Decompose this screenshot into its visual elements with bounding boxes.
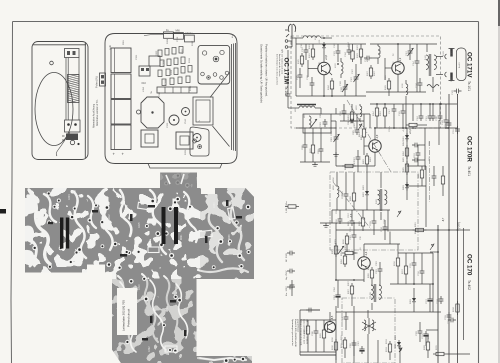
wire emitter T2 <box>397 75 399 93</box>
supply rail -9V <box>336 229 470 231</box>
wire <box>384 104 386 105</box>
svg-text:Leiterplatte 202 [K] 765: Leiterplatte 202 [K] 765 <box>122 300 126 331</box>
resistor R315 <box>433 353 436 355</box>
svg-text:Ts 102: Ts 102 <box>284 86 288 96</box>
capacitor C323 <box>418 328 423 336</box>
wire base T2 <box>385 67 392 69</box>
component board outline (Geraeteansicht) <box>105 34 237 164</box>
wire <box>329 312 331 321</box>
wire <box>355 64 357 74</box>
FM output socket box <box>457 48 467 81</box>
AM IF block edge <box>425 166 427 227</box>
wire base T3 <box>364 145 369 147</box>
wire <box>433 166 435 173</box>
svg-text:OC 171V: OC 171V <box>466 52 473 78</box>
dash-dot enclosure ratio detector <box>330 172 418 250</box>
voltage arrow 2 <box>358 124 362 130</box>
capacitor C206 <box>342 108 347 116</box>
wire rail crossbars <box>430 251 438 253</box>
wire <box>409 44 411 48</box>
capacitor C306 <box>352 340 357 348</box>
svg-text:L304: L304 <box>143 86 145 92</box>
svg-text:-1,4: -1,4 <box>365 251 368 256</box>
svg-text:OC 170: OC 170 <box>466 254 473 276</box>
svg-text:-8,7: -8,7 <box>442 217 445 222</box>
capacitor C221 <box>319 146 324 154</box>
socket contact b <box>450 73 452 81</box>
wire <box>371 266 373 268</box>
svg-text:+0,8: +0,8 <box>325 54 328 60</box>
wire bus <box>300 319 336 321</box>
capacitor C315 <box>412 260 417 268</box>
antenna terminal b <box>285 46 288 49</box>
capacitor C318 <box>439 296 444 304</box>
svg-text:+0,2: +0,2 <box>409 128 412 134</box>
voltage arrow 1 <box>397 211 401 217</box>
wire <box>360 44 362 46</box>
wire <box>380 172 382 188</box>
supply rail 2 <box>448 94 450 363</box>
wire <box>304 150 306 162</box>
diode D302 <box>413 296 415 298</box>
svg-text:Printed circuit: Printed circuit <box>127 309 131 327</box>
PCB etched trace channels (white) <box>28 190 248 360</box>
coupling capacitor C301 <box>352 232 357 240</box>
wire <box>337 44 339 48</box>
capacitor C320 <box>314 328 319 336</box>
wire <box>442 166 444 173</box>
wire AGC column <box>406 128 408 200</box>
wire <box>397 244 399 255</box>
node rail <box>437 229 439 231</box>
wire <box>419 78 421 80</box>
resistor R207 <box>442 173 444 176</box>
resistor R203 <box>366 153 368 156</box>
svg-text:R321: R321 <box>185 149 187 155</box>
resistor R210 <box>346 233 348 236</box>
resistor R102 <box>352 48 354 51</box>
white notch top edge <box>201 188 215 194</box>
legend capacitor 3 <box>287 285 295 290</box>
driver transformer Tr301 <box>371 285 373 299</box>
wire <box>445 104 447 117</box>
wire <box>377 44 379 46</box>
transformer footprint left <box>141 130 158 147</box>
supply rail 3 <box>457 94 459 363</box>
tuning capacitor C108 (variable) <box>343 84 348 92</box>
thermistor R312 <box>389 341 391 344</box>
capacitor C106 <box>310 80 315 88</box>
connector tab MW <box>174 33 184 40</box>
svg-text:C230: C230 <box>214 202 216 208</box>
voltage arrow 3 <box>430 244 434 250</box>
svg-text:R303: R303 <box>156 50 158 56</box>
IF can TR302 <box>182 108 190 116</box>
ground AF <box>323 223 329 227</box>
wire h 186 <box>407 185 426 187</box>
node <box>335 279 337 281</box>
svg-text:C215: C215 <box>139 222 141 228</box>
wire FM left vertical <box>295 44 297 96</box>
transistor T3 OC170R <box>369 140 381 152</box>
transformer footprint bars middle <box>162 207 166 244</box>
svg-text:R318: R318 <box>167 306 169 312</box>
svg-text:Modell 9 MΩ, (MW/KHz/NSE: Modell 9 MΩ, (MW/KHz/NSE <box>294 319 296 348</box>
wire <box>345 172 347 191</box>
capacitor C310 on rail <box>447 120 452 128</box>
capacitor C205 <box>355 127 360 135</box>
output jack b <box>445 72 447 77</box>
svg-text:C204: C204 <box>69 194 71 200</box>
diode AFC <box>323 42 325 44</box>
wire h 166 <box>407 165 426 167</box>
legend capacitor 2 <box>287 269 295 274</box>
diode D202 <box>406 182 408 184</box>
volume potentiometer R302 <box>335 243 337 246</box>
capacitor C114 <box>415 58 420 66</box>
speaker cone ellipse <box>35 73 73 146</box>
white notch bottom edge <box>87 265 105 273</box>
wire <box>416 44 418 58</box>
electrolytic C317 <box>427 296 432 304</box>
capacitor C319 <box>447 312 452 320</box>
electrolytic capacitor C4 (layout) <box>111 125 131 150</box>
fixing screw <box>70 140 74 144</box>
speaker rim (side view) <box>232 43 236 151</box>
resistor R320 <box>307 323 309 326</box>
ferrite antenna coil L202 <box>299 106 315 108</box>
lower chassis box <box>190 127 209 156</box>
node <box>413 283 415 285</box>
svg-text:OC 170R: OC 170R <box>466 136 473 162</box>
wire collector T1 <box>323 75 325 96</box>
legend resistor symbol <box>285 206 288 208</box>
resistor R306 <box>371 267 373 270</box>
wire <box>405 80 407 84</box>
svg-text:R316: R316 <box>190 85 192 91</box>
svg-text:Fi101: Fi101 <box>425 54 427 60</box>
chassis speaker magnet housing <box>198 45 230 84</box>
capacitor C122 <box>444 117 449 125</box>
svg-text:Position of switches shown:: Position of switches shown: UK-key pushe… <box>265 44 269 97</box>
trimmer C113 <box>408 48 413 56</box>
wire <box>348 44 350 47</box>
antenna <box>285 24 296 38</box>
wire <box>344 80 346 84</box>
svg-text:gegen Masse: gegen Masse <box>297 319 299 333</box>
wire antenna to input coil <box>292 37 303 39</box>
svg-text:Voltages measured in posit.: Voltages measured in posit. <box>300 319 303 346</box>
node <box>337 63 339 65</box>
wire h link <box>398 252 433 254</box>
svg-text:R304: R304 <box>167 38 169 44</box>
wire base T4 <box>354 252 358 254</box>
capacitor C219 <box>372 218 377 226</box>
diode D203 <box>366 189 368 191</box>
transformer footprint bars left <box>60 218 63 249</box>
resistor R204 <box>406 145 408 148</box>
node <box>353 222 355 224</box>
electrolytic capacitor C3 (layout) <box>111 100 131 125</box>
ground <box>333 152 339 156</box>
PCB protrusion overlay <box>160 173 197 188</box>
capacitor C303 <box>378 266 383 274</box>
wire <box>340 58 342 62</box>
wire <box>384 220 386 224</box>
wire emitter rail <box>336 165 375 167</box>
wire emitter <box>329 72 332 75</box>
svg-text:Polen (IN): Polen (IN) <box>95 76 99 88</box>
wire <box>397 269 399 284</box>
resistor group R301/R302 labels <box>139 66 150 76</box>
svg-text:rosa: rosa <box>122 40 125 45</box>
resistor R112 <box>384 105 386 108</box>
capacitor C213 <box>416 150 421 158</box>
wire emitter T4 <box>363 270 365 283</box>
wire <box>353 223 355 232</box>
capacitor C218 <box>383 224 388 232</box>
short feed <box>438 120 440 145</box>
wire <box>337 280 339 292</box>
tab feed wire <box>144 34 164 35</box>
resistor R205 <box>406 161 408 164</box>
svg-text:mit Tasten nach vorn: mit Tasten nach vorn <box>281 54 284 75</box>
resistor R316 <box>397 255 399 258</box>
wire <box>345 312 347 314</box>
svg-text:Ker. 125V: Ker. 125V <box>285 286 288 296</box>
dash-dot AM IF boundary <box>429 141 431 202</box>
wire <box>307 320 309 323</box>
svg-text:C512: C512 <box>185 118 187 124</box>
capacitor C214 <box>432 173 437 181</box>
wire <box>304 128 306 142</box>
svg-text:Fi201: Fi201 <box>376 198 378 204</box>
wire volume pot <box>335 223 337 280</box>
wire <box>447 353 470 355</box>
svg-text:R308: R308 <box>171 69 173 75</box>
resistor R322 <box>427 339 429 342</box>
capacitor C207 <box>356 154 361 162</box>
oscillator coil L201 <box>309 116 311 128</box>
svg-text:C301: C301 <box>136 54 138 60</box>
node junction <box>323 37 325 39</box>
capacitor C311 <box>455 126 460 134</box>
wire collector T3 <box>374 128 376 140</box>
svg-text:NF. 500V: NF. 500V <box>286 252 288 262</box>
magnet support rails <box>66 58 79 121</box>
svg-text:R236: R236 <box>229 234 231 240</box>
resistor R215 <box>312 142 314 145</box>
PCB tiny white reference labels <box>69 194 231 352</box>
resistor R202 <box>351 109 353 112</box>
wire AF bus <box>336 279 364 281</box>
svg-text:-0,9: -0,9 <box>376 134 379 139</box>
capacitor C121 <box>401 108 406 116</box>
AF top rail <box>320 222 362 224</box>
svg-text:Ts 401: Ts 401 <box>467 166 471 176</box>
capacitor C204 <box>348 119 356 124</box>
resistor R310 <box>335 339 337 342</box>
wire <box>346 232 348 234</box>
cone magnet block <box>193 97 213 125</box>
capacitor C321 <box>306 308 314 313</box>
wire diode to T1 <box>323 51 325 62</box>
svg-text:Ts 402: Ts 402 <box>467 280 471 290</box>
IF transformer Fi101 <box>426 55 428 69</box>
wire <box>389 340 391 342</box>
resistor R107 <box>370 65 372 68</box>
capacitor C124 <box>418 80 423 88</box>
node <box>397 43 399 45</box>
supply rail 4 <box>432 253 434 312</box>
svg-text:R312: R312 <box>192 40 194 46</box>
wire mixer rail <box>352 113 370 115</box>
supply rail 5 <box>463 228 465 340</box>
svg-text:R221: R221 <box>181 234 183 240</box>
wire <box>373 210 375 218</box>
wire <box>420 159 425 161</box>
capacitor C313 <box>448 318 456 323</box>
capacitor C217 <box>350 218 355 226</box>
mechanical link detector <box>333 182 371 229</box>
board tiny ref labels <box>136 36 201 155</box>
node <box>440 103 442 105</box>
wire collector T2 <box>397 44 399 62</box>
wire <box>366 172 368 189</box>
svg-text:0,1W 1/10w: 0,1W 1/10w <box>286 201 288 213</box>
bottom rail FM <box>296 95 366 97</box>
wire <box>420 124 427 126</box>
wire h <box>300 351 336 353</box>
trimmer hole <box>137 110 141 114</box>
transistor T2 OC171V <box>392 62 404 74</box>
wire <box>299 68 301 72</box>
resistor R201 <box>363 126 365 129</box>
capacitor C101 <box>304 47 309 55</box>
wire <box>305 44 307 47</box>
coil L105 <box>378 46 380 58</box>
wire <box>429 284 431 296</box>
oscillator tank circuit loop <box>303 114 331 133</box>
wire base T1 <box>308 68 318 70</box>
electrolytic C312 <box>423 331 428 339</box>
resistor R304 <box>344 253 346 256</box>
wire <box>370 64 372 66</box>
resistor R307 <box>351 283 353 286</box>
wire <box>314 309 320 311</box>
dashed enclosure UKW tuner <box>291 36 441 128</box>
wire <box>335 121 337 134</box>
capacitor C104 <box>347 47 352 55</box>
electrolytic C307 <box>359 346 364 354</box>
emitter resistor R109 <box>388 78 390 81</box>
capacitor C110 <box>364 56 372 61</box>
wire <box>312 44 314 46</box>
wire <box>417 145 419 150</box>
wire h 121 <box>340 120 364 122</box>
transistor T4 OC170 <box>358 257 370 269</box>
wire det verticals <box>387 210 389 232</box>
IF can TR303 <box>193 134 201 142</box>
electrolytic capacitor C1 (layout) <box>111 48 131 73</box>
diode D201 <box>406 133 408 135</box>
wire <box>419 322 421 328</box>
svg-text:Alternative version of B 1: Alternative version of B 1 <box>96 99 99 126</box>
ferrite rod <box>297 104 316 106</box>
wire <box>432 104 434 113</box>
wire FM out top <box>436 56 443 58</box>
svg-text:Gezeichnete Schalterstellung:: Gezeichnete Schalterstellung: UK-Taste g… <box>260 44 264 104</box>
AM ground rail <box>300 161 330 163</box>
resistor R113 <box>406 124 409 126</box>
coil core arrow <box>311 119 317 127</box>
capacitor C118 <box>419 113 424 121</box>
wire top rail FM left <box>296 43 366 45</box>
mechanical tuning link (dash-dot diagonal) <box>347 100 391 172</box>
wire <box>296 107 299 109</box>
resistor R105 <box>301 53 303 56</box>
small parts cluster on board (switch bank area) <box>158 47 192 86</box>
svg-text:C217b: C217b <box>389 125 391 132</box>
connector tab UK-Fu <box>185 35 195 42</box>
svg-text:010: 010 <box>142 81 147 85</box>
wire rail to T2 stage <box>370 43 437 45</box>
detector coil L204 <box>337 186 339 197</box>
svg-text:Ansicht auf die Lötseite: Ansicht auf die Lötseite <box>278 54 281 77</box>
resistor R208 <box>353 190 355 193</box>
resistor R206 <box>421 167 423 170</box>
wire <box>287 99 289 108</box>
svg-text:C306: C306 <box>177 36 179 42</box>
resistor R101 <box>312 46 314 49</box>
wire rails bottom <box>335 306 337 363</box>
output jack a <box>445 54 447 59</box>
capacitor C202 <box>323 119 328 127</box>
wire <box>356 114 358 127</box>
handwritten voltage notes <box>325 54 445 320</box>
legend voltages text block <box>291 319 308 348</box>
board bottom tab <box>148 164 222 169</box>
note bei Tastatur small lines <box>276 54 284 86</box>
loudspeaker box B1 outline (rear view) <box>32 42 88 160</box>
wire <box>311 77 313 80</box>
wire IF bus <box>405 104 407 128</box>
printed circuit board Leiterplatte 202 - copper plane with etched traces <box>25 172 255 363</box>
coil L203 <box>360 106 362 117</box>
wire <box>420 144 425 146</box>
lower terminal strip <box>65 120 81 132</box>
capacitor C211 <box>412 158 420 163</box>
FM bottom rail right <box>366 91 426 93</box>
ground <box>312 162 318 166</box>
resistor R114 <box>376 105 378 108</box>
svg-text:C310: C310 <box>165 79 167 85</box>
trimmer C107 <box>354 74 359 82</box>
transformer footprint right <box>176 132 193 149</box>
wire IF line <box>375 127 420 129</box>
speaker cone side view <box>210 73 230 147</box>
housing detail circles <box>202 51 206 55</box>
wire AM rail <box>296 127 336 129</box>
resistor R318 <box>457 301 459 304</box>
wire <box>291 280 293 282</box>
wire h link2 <box>390 283 433 285</box>
svg-text:C304: C304 <box>163 60 165 66</box>
transistor T1 OC171M <box>318 62 330 74</box>
wire h bus 312 <box>336 311 441 313</box>
svg-text:bei Gehäuse von oben gesehen: bei Gehäuse von oben gesehen <box>276 54 278 86</box>
wire <box>357 150 359 154</box>
